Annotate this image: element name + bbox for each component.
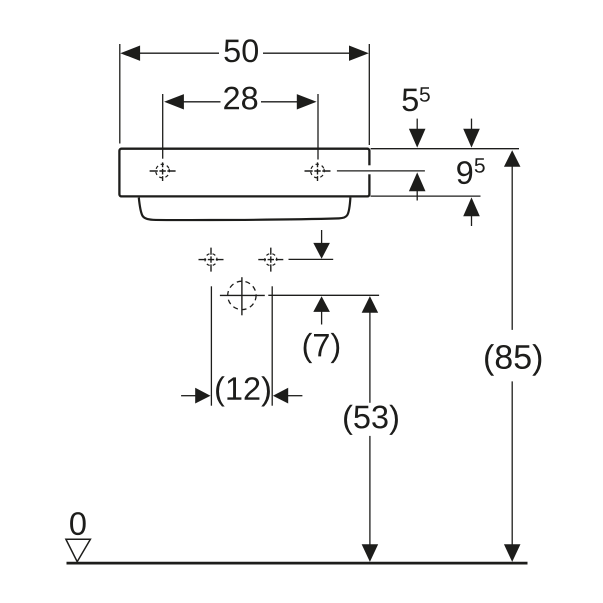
tap hole right dashed circle bbox=[309, 162, 326, 179]
label 9 superscript bbox=[475, 158, 485, 173]
tap hole left crosshair vertical bbox=[162, 162, 164, 181]
label 5 superscript bbox=[420, 87, 430, 102]
dimension 12 right arrow tail bbox=[287, 395, 302, 397]
dimension 50 arrowhead right bbox=[349, 46, 369, 61]
ground line bbox=[67, 562, 528, 565]
label 50 bbox=[224, 39, 258, 62]
dimension 9.5 upper arrow tail bbox=[471, 119, 473, 130]
thin line at rim top level extending right bbox=[371, 148, 519, 150]
dimension 28 extension line left bbox=[162, 94, 164, 159]
dimension 5.5 upper arrow tail bbox=[416, 119, 418, 130]
dimension 53 line lower segment bbox=[369, 436, 371, 545]
drain dashed circle bbox=[228, 281, 256, 309]
dimension 9.5 lower arrow tail bbox=[471, 215, 473, 226]
dimension 85 upper arrowhead pointing up bbox=[504, 150, 521, 167]
dimension 53 line upper segment bbox=[369, 312, 371, 403]
dimension 53 upper arrowhead pointing up bbox=[362, 296, 379, 313]
gap in rim right edge bbox=[367, 165, 371, 174]
dimension 50 extension line right bbox=[368, 44, 370, 145]
tap hole right crosshair vertical bbox=[317, 162, 319, 181]
dimension 7 lower arrow tail bbox=[321, 311, 323, 325]
dimension 85 lower arrowhead pointing down bbox=[504, 544, 521, 562]
line at wall tap level bbox=[289, 258, 334, 260]
dimension 12 right arrowhead pointing left bbox=[273, 388, 288, 404]
dimension 85 line lower segment bbox=[511, 381, 513, 545]
dimension 9.5 lower arrowhead pointing up bbox=[463, 197, 480, 216]
label (53) bbox=[344, 405, 398, 435]
washbasin bowl outline bbox=[139, 198, 351, 220]
dimension 85 line upper segment bbox=[511, 166, 513, 330]
thin line at tap hole level extending right bbox=[337, 170, 425, 172]
dimension 28 line right segment bbox=[261, 101, 300, 103]
dimension 50 line right segment bbox=[263, 52, 350, 54]
wall fixing hole right crosshair horizontal bbox=[258, 259, 283, 261]
wall fixing hole left crosshair vertical bbox=[210, 248, 212, 272]
dimension 12 extension line right bbox=[271, 286, 273, 405]
thin line at rim bottom level extending right bbox=[371, 195, 481, 197]
wall fixing hole right crosshair vertical bbox=[270, 248, 272, 272]
dimension 28 arrowhead right bbox=[297, 94, 317, 109]
wall fixing hole left dashed circle bbox=[203, 252, 218, 267]
dimension 7 lower arrowhead pointing up bbox=[313, 296, 330, 312]
datum triangle bbox=[66, 539, 91, 562]
dimension 9.5 upper arrowhead pointing down bbox=[463, 129, 480, 148]
drain crosshair vertical bbox=[241, 277, 243, 315]
label (85) bbox=[485, 344, 541, 376]
drain level dimension line bbox=[268, 294, 379, 296]
wall fixing hole right dashed circle bbox=[263, 252, 278, 267]
label (7) bbox=[304, 333, 340, 363]
dimension 7 upper arrow tail bbox=[321, 230, 323, 244]
tap hole left crosshair horizontal bbox=[150, 170, 176, 172]
drain crosshair horizontal bbox=[220, 294, 265, 296]
dimension 50 line left segment bbox=[139, 52, 220, 54]
dimension 50 arrowhead left bbox=[120, 46, 140, 61]
tap hole right crosshair horizontal bbox=[305, 170, 331, 172]
tap hole left dashed circle bbox=[154, 162, 171, 179]
label (12) bbox=[216, 376, 270, 406]
dimension 5.5 lower arrow tail bbox=[416, 190, 418, 200]
dimension 28 extension line right bbox=[317, 94, 319, 160]
dimension 53 lower arrowhead pointing down bbox=[362, 544, 379, 562]
label 9 base bbox=[457, 161, 472, 184]
dimension 50 extension line left bbox=[119, 44, 121, 144]
dimension 12 left arrowhead pointing right bbox=[195, 388, 210, 404]
label 5 base bbox=[403, 89, 418, 112]
label 0 datum bbox=[70, 512, 86, 535]
dimension 5.5 upper arrowhead pointing down bbox=[409, 129, 426, 148]
dimension 12 left arrow tail bbox=[181, 395, 196, 397]
washbasin rim outline bbox=[119, 149, 369, 197]
label 28 bbox=[224, 87, 257, 110]
dimension 7 upper arrowhead pointing down bbox=[313, 243, 330, 259]
dimension 5.5 lower arrowhead pointing up bbox=[409, 172, 426, 191]
dimension 28 arrowhead left bbox=[164, 94, 184, 109]
wall fixing hole left crosshair horizontal bbox=[199, 259, 224, 261]
dimension 28 line left segment bbox=[182, 101, 221, 103]
dimension 12 extension line left bbox=[210, 286, 212, 405]
